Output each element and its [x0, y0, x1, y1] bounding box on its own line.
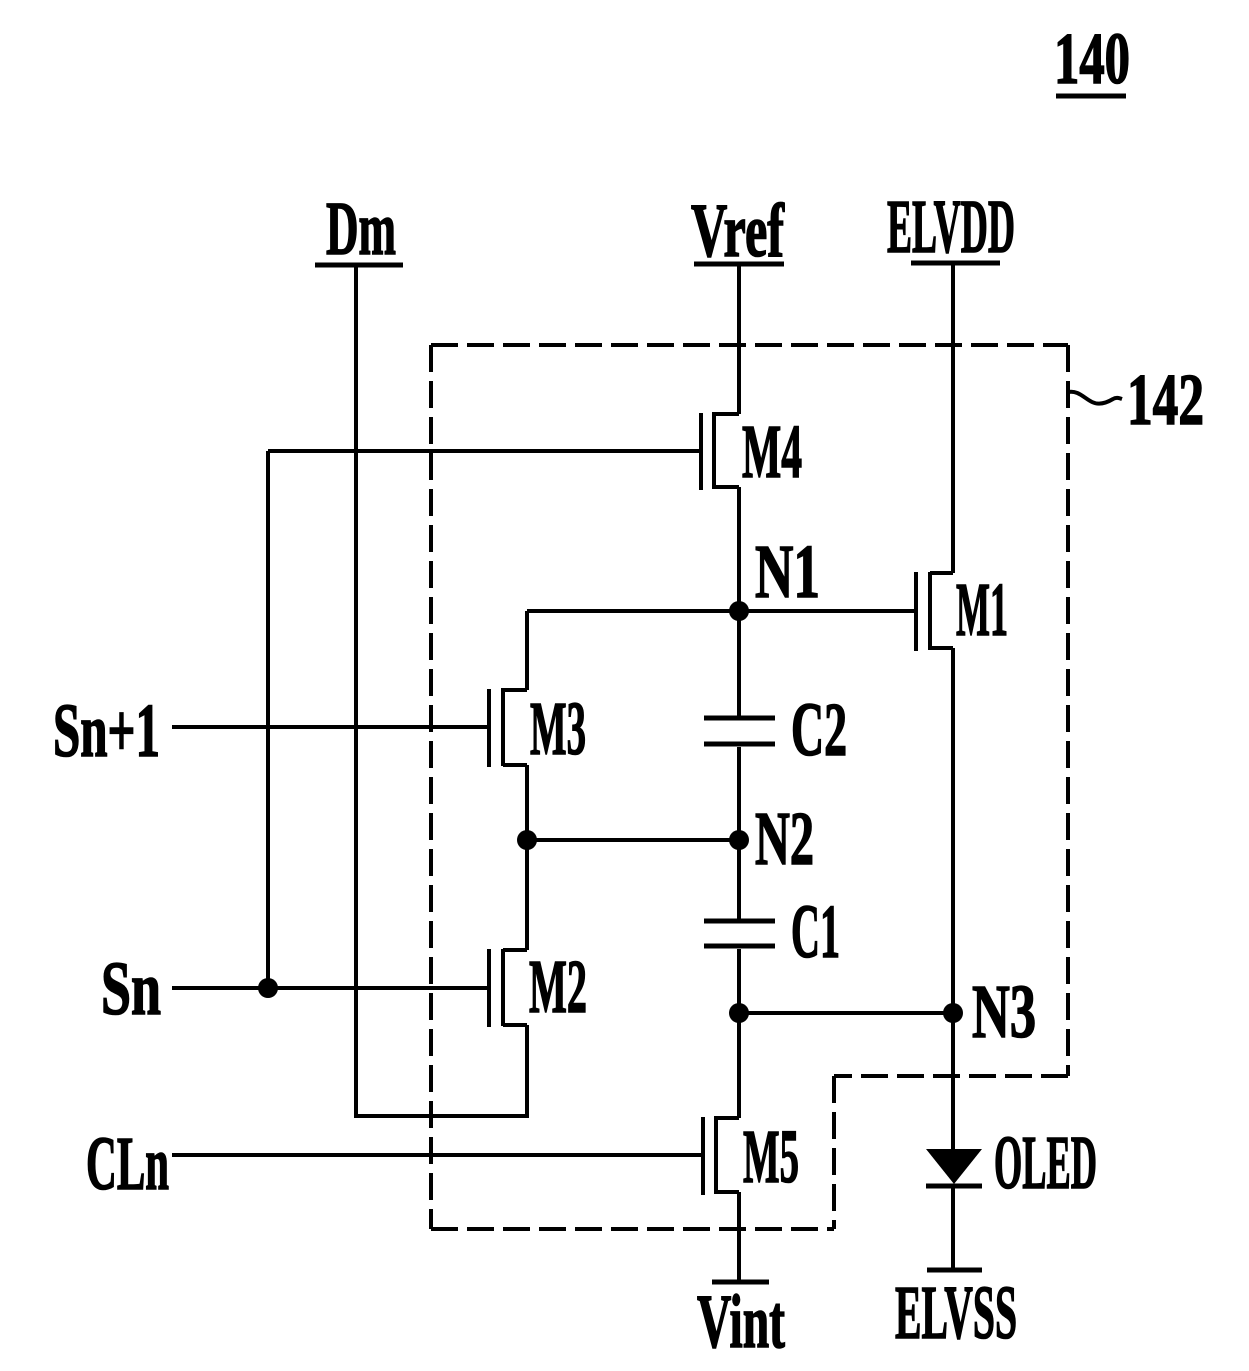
svg-text:M1: M1: [956, 568, 1008, 652]
svg-text:M4: M4: [742, 410, 802, 494]
svg-text:C1: C1: [791, 890, 840, 974]
svg-text:Sn: Sn: [101, 947, 161, 1031]
svg-text:C2: C2: [791, 688, 847, 772]
svg-text:N2: N2: [755, 797, 814, 881]
svg-text:Dm: Dm: [326, 187, 396, 271]
svg-text:ELVDD: ELVDD: [887, 185, 1015, 269]
svg-text:ELVSS: ELVSS: [895, 1271, 1017, 1355]
svg-text:140: 140: [1054, 18, 1130, 99]
svg-text:N3: N3: [972, 970, 1036, 1054]
svg-text:Vint: Vint: [697, 1280, 785, 1364]
svg-text:CLn: CLn: [86, 1122, 169, 1206]
svg-text:M5: M5: [743, 1115, 799, 1199]
svg-text:142: 142: [1127, 359, 1204, 440]
svg-text:M2: M2: [529, 945, 587, 1029]
svg-text:N1: N1: [755, 530, 820, 614]
svg-text:OLED: OLED: [994, 1121, 1097, 1205]
svg-text:Vref: Vref: [691, 189, 785, 273]
svg-text:Sn+1: Sn+1: [53, 689, 160, 773]
svg-text:M3: M3: [530, 687, 586, 771]
